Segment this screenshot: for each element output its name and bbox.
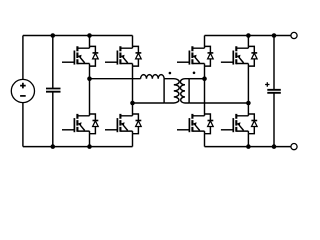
node: output terminal -: [291, 144, 297, 150]
transistor Q4 (left bridge low-side B): [105, 114, 141, 134]
wire: secondary winding bottom to leg D switch node: [189, 102, 248, 104]
wire: leg B drain lead from top rail: [132, 36, 134, 47]
node: secondary polarity dot: [193, 72, 196, 75]
wire: leg B switch node to primary winding bottom: [133, 102, 165, 104]
transformer T1 secondary winding: [180, 79, 189, 103]
wire: leg B source lead to bottom rail: [132, 134, 134, 147]
wire: leg A source lead to bottom rail: [89, 134, 91, 147]
capacitor C1: [46, 36, 61, 147]
transistor Q5 (right bridge high-side C): [177, 46, 213, 66]
wire: leg D mid vertical (HS source to LS drain): [247, 66, 249, 114]
wire: left branch top (source to top rail corner): [22, 36, 24, 80]
node: primary polarity dot: [169, 72, 172, 75]
capacitor C2 (output): [267, 36, 281, 147]
transistor Q2 (left bridge high-side B): [105, 46, 141, 66]
wire: leg C drain lead from top rail: [204, 36, 206, 47]
wire: leg A switch node to inductor: [90, 78, 141, 80]
transistor Q8 (right bridge low-side D): [221, 114, 257, 134]
wire: left bridge top rail: [23, 35, 133, 37]
node: leg D switch node junction: [246, 101, 251, 106]
wire: leg D drain lead from top rail: [247, 36, 249, 47]
wire: right bridge bottom rail: [205, 146, 291, 148]
transistor Q3 (left bridge low-side A): [62, 114, 98, 134]
inductor L1 (series leakage): [141, 75, 165, 79]
transistor Q1 (left bridge high-side A): [62, 46, 98, 66]
node: leg C switch node junction: [202, 76, 207, 81]
transformer T1 primary winding: [164, 79, 179, 103]
node: leg D top rail junction: [246, 33, 251, 38]
wire: leg D source lead to bottom rail: [247, 134, 249, 147]
wire: left branch bottom: [22, 103, 24, 147]
node: C2 plus label: [265, 82, 269, 86]
wire: leg C source lead to bottom rail: [204, 134, 206, 147]
wire: leg B mid vertical (HS source to LS drain): [132, 66, 134, 114]
voltage source V1: [11, 79, 34, 102]
transistor Q6 (right bridge high-side D): [221, 46, 257, 66]
node: leg A top rail junction: [87, 33, 92, 38]
wire: leg A drain lead from top rail: [89, 36, 91, 47]
node: output terminal +: [291, 32, 297, 38]
wire: secondary winding top to leg C switch node: [189, 78, 204, 80]
node: leg B switch node junction: [130, 101, 135, 106]
node: right cap top junction: [272, 33, 277, 38]
node: leg A bottom rail junction: [87, 144, 92, 149]
wire: leg C mid vertical (HS source to LS drain): [204, 66, 206, 114]
node: leg A switch node junction: [87, 76, 92, 81]
transistor Q7 (right bridge low-side C): [177, 114, 213, 134]
node: right cap bottom junction: [272, 144, 277, 149]
node: C1 bottom junction: [51, 144, 56, 149]
wire: left bridge bottom rail: [23, 146, 133, 148]
node: C1 top junction: [51, 33, 56, 38]
node: leg D bottom rail junction: [246, 144, 251, 149]
wire: leg A mid vertical (HS source to LS drain): [89, 66, 91, 114]
wire: right bridge top rail: [205, 35, 291, 37]
